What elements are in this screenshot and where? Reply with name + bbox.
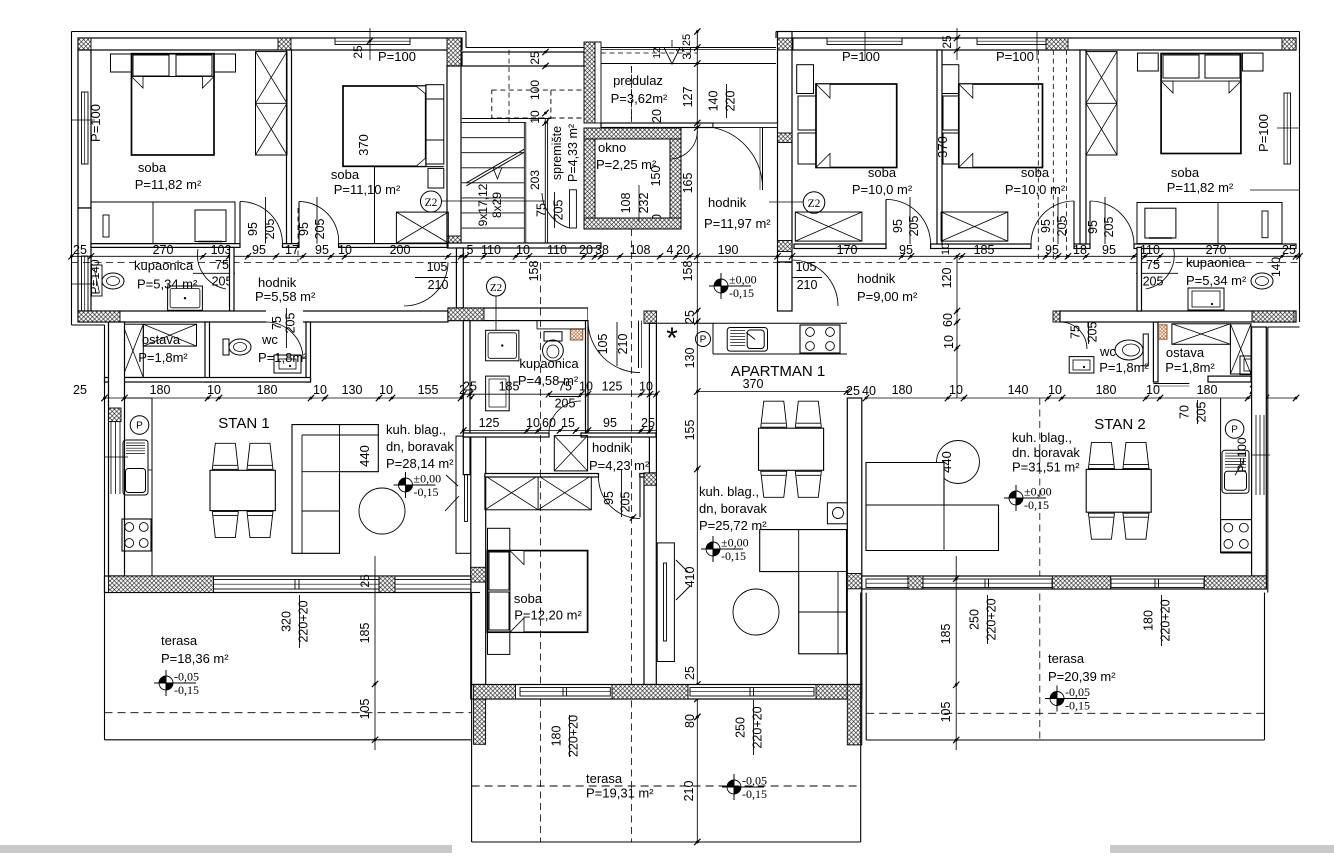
rug circle apartman1 [733, 589, 779, 635]
door arc first soba right [886, 199, 931, 244]
wall: bottom of kupaonica & hodnik left (y311) [78, 311, 448, 322]
svg-text:P=28,14 m²: P=28,14 m² [386, 456, 454, 471]
svg-text:180: 180 [550, 726, 564, 747]
door kupaonica left arc [197, 249, 226, 289]
wall STAN1 / soba 12,20 [471, 436, 486, 685]
svg-text:±0,00: ±0,00 [1024, 485, 1052, 499]
svg-text:105: 105 [939, 702, 953, 723]
window apartman1 bottom 2 [690, 688, 814, 697]
svg-text:205: 205 [1195, 402, 1209, 423]
stove stan2 [1221, 520, 1252, 552]
door leaf 105/210 center [638, 321, 640, 368]
dashed construction line in stair area [508, 50, 510, 122]
svg-text:158: 158 [681, 261, 695, 282]
svg-text:75: 75 [535, 203, 549, 217]
wall: top band right block [781, 38, 1296, 50]
hodnik 4,23 left wall [463, 437, 470, 475]
svg-text:P=1,8m²: P=1,8m² [1099, 360, 1149, 375]
door arc soba 11,82 right [1090, 201, 1134, 244]
svg-text:ostava: ostava [1166, 345, 1205, 360]
table STAN1 [212, 443, 238, 469]
door leaf soba 12,20 [639, 477, 641, 517]
svg-text:40: 40 [862, 384, 876, 398]
sofa stan2 [866, 463, 999, 551]
svg-text:110: 110 [481, 243, 501, 257]
ostava right bottom wall [1208, 376, 1251, 382]
bed soba 11,10 left fold [416, 158, 426, 166]
rug circle STAN1 [359, 488, 405, 534]
svg-text:predulaz: predulaz [613, 73, 663, 88]
door 105/210 opening right (hodnik 9,00) [792, 260, 838, 306]
hatched pier top wall right block [1046, 38, 1068, 50]
svg-text:140: 140 [707, 91, 721, 112]
dimension row right side y=398 [866, 397, 1296, 399]
svg-text:20: 20 [650, 109, 664, 123]
window P=100 in left wall [82, 92, 89, 164]
svg-text:205: 205 [1086, 322, 1100, 343]
svg-text:220+20: 220+20 [297, 600, 311, 642]
step lines at left wall top [72, 324, 105, 326]
washing machine orange kupaonica 4,58 [570, 329, 583, 340]
svg-text:P=140: P=140 [88, 259, 102, 294]
svg-text:P=20,39 m²: P=20,39 m² [1048, 669, 1116, 684]
svg-text:440: 440 [357, 445, 372, 467]
svg-text:P=100: P=100 [88, 104, 103, 142]
tv wall apartman1 [657, 543, 674, 662]
svg-text:140: 140 [1008, 383, 1029, 397]
hatch apartman1 bottom mid [612, 685, 688, 700]
staircase lower landing left wall [456, 248, 463, 308]
svg-text:-0,15: -0,15 [174, 683, 199, 697]
svg-text:-0,15: -0,15 [729, 286, 754, 300]
right terrace outline [865, 593, 867, 740]
kupaonica right bottom wall y311-322 [1060, 311, 1296, 322]
svg-text:P=11,82 m²: P=11,82 m² [135, 177, 202, 192]
wall piece at predulaz door right [713, 123, 778, 128]
niche wall right of soba 11,10 [374, 167, 376, 244]
svg-text:100: 100 [528, 80, 542, 100]
svg-text:25: 25 [358, 574, 372, 588]
dimension row y=394 center [463, 393, 656, 395]
svg-text:127: 127 [681, 87, 695, 108]
svg-text:180: 180 [1142, 610, 1156, 631]
door labels 75/205 wc left [285, 308, 287, 348]
entry door 140/220 leaf [762, 128, 764, 191]
stove apartman1 [800, 325, 840, 353]
bed first soba 10,0: pillows [798, 96, 816, 130]
okno inner lines [595, 139, 670, 218]
table apartman 1 [761, 401, 787, 427]
svg-text:STAN 1: STAN 1 [218, 415, 269, 432]
svg-text:31: 31 [680, 46, 694, 60]
svg-text:P=5,58 m²: P=5,58 m² [255, 289, 316, 304]
svg-text:P=4,33 m²: P=4,33 m² [566, 124, 580, 182]
hatched pier top-right of predulaz wall [781, 38, 793, 50]
wall: bottom of left bedrooms [91, 244, 240, 248]
step at right wall y=327 [1268, 326, 1300, 328]
svg-text:10: 10 [526, 416, 540, 430]
door into hodnik 5,58 from landing [404, 262, 448, 306]
svg-text:soba: soba [1021, 165, 1050, 180]
door leaf first soba right [885, 199, 887, 244]
bed soba 11,82 right mattress [1161, 54, 1241, 154]
window stan2 bottom 2 [923, 579, 1052, 588]
svg-text:185: 185 [499, 380, 520, 394]
wardrobe soba 11,82 right (tall) [1086, 52, 1117, 155]
dashed construction line through predulaz [631, 66, 633, 128]
svg-text:terasa: terasa [161, 633, 198, 648]
leader Z2 middle [495, 296, 497, 330]
svg-text:250: 250 [734, 717, 748, 738]
svg-text:P=2,25 m²: P=2,25 m² [596, 157, 657, 172]
door labels 95/205 soba 12,20 [621, 469, 623, 517]
door 105/210 into kupaonica area [588, 307, 641, 321]
svg-text:250: 250 [968, 609, 982, 630]
svg-text:wc: wc [1099, 344, 1116, 359]
wardrobe second soba right [941, 212, 1008, 241]
svg-text:okno: okno [598, 140, 626, 155]
kitchen counter STAN1 [151, 398, 153, 576]
sofa apartman1 back line [837, 572, 839, 654]
svg-text:±0,00: ±0,00 [729, 273, 757, 287]
svg-text:140: 140 [1269, 257, 1283, 277]
sink kupaonica right [1188, 288, 1224, 310]
circle 440 stan2 [937, 441, 980, 484]
door leaf soba 11,82 right [1089, 201, 1091, 244]
hatch stan2 bottom right corner [1204, 576, 1266, 589]
bottom wall STAN2 block [862, 576, 1267, 589]
toilet kupaonica left [102, 273, 124, 289]
svg-text:110: 110 [1140, 243, 1160, 257]
svg-text:12: 12 [652, 47, 663, 59]
svg-text:soba: soba [138, 160, 167, 175]
dashed construction line horizontal y=262.5 [72, 262, 1300, 264]
svg-text:370: 370 [356, 134, 371, 156]
svg-text:terasa: terasa [586, 771, 623, 786]
wall kupaonica/hodnik right [1137, 247, 1142, 311]
center terrace bottom vertical dims ticks [694, 714, 700, 720]
svg-text:25: 25 [73, 243, 87, 257]
svg-text:P=11,82 m²: P=11,82 m² [1167, 180, 1234, 195]
hatch stan2 bottom 2 [1052, 576, 1110, 589]
door arc kupaonica 4,58 bottom [549, 401, 581, 433]
svg-text:170: 170 [837, 243, 858, 257]
door labels 95/205 second soba right [1057, 197, 1059, 244]
svg-text:270: 270 [153, 243, 174, 257]
svg-text:105: 105 [596, 334, 610, 355]
svg-text:95: 95 [603, 416, 617, 430]
svg-text:180: 180 [257, 383, 278, 397]
dimension chain ticks [68, 253, 74, 259]
wall: left outer wall at kupaonica [78, 208, 91, 311]
P circle stan2 [1225, 420, 1244, 439]
svg-text:158: 158 [527, 261, 541, 282]
hatch piece right of center door [644, 311, 656, 323]
sink STAN1 [123, 440, 148, 495]
wall: between left bedrooms [287, 50, 292, 244]
svg-text:17: 17 [285, 243, 299, 257]
bed soba 11,10 left: mattress [343, 86, 426, 166]
svg-text:75: 75 [1146, 258, 1160, 272]
svg-text:25: 25 [683, 666, 697, 680]
svg-text:185: 185 [939, 624, 953, 645]
svg-text:P=18,36 m²: P=18,36 m² [161, 651, 229, 666]
sofa STAN1 inner lines [339, 425, 341, 472]
kitchen counter apartman 1 [712, 323, 714, 354]
svg-text:P=25,72 m²: P=25,72 m² [699, 518, 767, 533]
window P=100 left STAN1 [110, 421, 112, 494]
dashed opening rectangle above stairs [492, 90, 551, 118]
svg-text:105: 105 [358, 699, 372, 720]
svg-text:190: 190 [718, 243, 739, 257]
spremiste door arc [542, 193, 570, 228]
svg-text:108: 108 [619, 193, 633, 214]
svg-text:210: 210 [428, 278, 449, 292]
svg-text:10: 10 [1048, 383, 1062, 397]
stan2 kitchen counter [1220, 398, 1222, 553]
bottom wall apartman1 block [471, 685, 862, 700]
center terrace inner step lines [472, 592, 480, 594]
svg-text:P=10,0 m²: P=10,0 m² [1005, 182, 1066, 197]
hatch apartman1 bottom right [816, 685, 847, 700]
right outer line lower [1267, 327, 1269, 593]
svg-text:25: 25 [683, 310, 697, 324]
svg-text:P=3,62m²: P=3,62m² [611, 91, 668, 106]
svg-text:10: 10 [313, 383, 327, 397]
door labels 95/205 soba 11,82 left [265, 197, 267, 244]
svg-text:25: 25 [940, 35, 954, 49]
gray bottom bar right [1110, 845, 1334, 853]
svg-text:P=10,0 m²: P=10,0 m² [852, 182, 913, 197]
svg-text:P=100: P=100 [1235, 437, 1249, 472]
stove STAN1 [122, 519, 151, 551]
svg-text:wc: wc [261, 332, 278, 347]
bed first soba 10,0: nightstand [797, 65, 814, 94]
right terrace dashed line [866, 712, 1264, 714]
bed soba 12,20 nightstands [488, 528, 510, 550]
svg-text:205: 205 [313, 219, 327, 240]
tv on dresser right [1145, 208, 1176, 238]
window apartman1 bottom 1 [520, 688, 610, 697]
svg-text:60: 60 [941, 313, 955, 327]
desk right of soba 11,10 [426, 85, 444, 164]
kitchen top piece stan2 [1240, 356, 1264, 375]
door arc second soba right [1031, 201, 1074, 244]
svg-text:-0,15: -0,15 [1065, 699, 1090, 713]
svg-text:165: 165 [681, 173, 695, 194]
wall wc/ostava right [1153, 322, 1158, 382]
svg-text:25: 25 [351, 45, 365, 59]
wardrobe row soba 12,20 [485, 476, 591, 510]
svg-text:25: 25 [681, 34, 693, 46]
kupaonica 4,58 left wall [463, 321, 470, 437]
svg-text:4: 4 [667, 243, 674, 257]
wardrobe soba 11,82 left [256, 52, 288, 155]
svg-text:soba: soba [514, 591, 543, 606]
svg-text:205: 205 [907, 216, 921, 237]
dimension row STAN1 top y=398 [105, 397, 472, 399]
bed first soba 10,0: mattress [816, 84, 897, 168]
dashed line x=298 left [297, 208, 299, 263]
sofa STAN1 [292, 425, 378, 554]
svg-text:10: 10 [528, 110, 542, 124]
center terrace elevation [727, 780, 734, 787]
svg-text:130: 130 [342, 383, 363, 397]
hatch pier on left wall STAN1 [109, 408, 122, 422]
svg-text:185: 185 [358, 623, 372, 644]
window P=140 in left wall at kupaonica [82, 256, 89, 311]
door arc kupaonica right [1146, 249, 1175, 289]
svg-text:108: 108 [630, 243, 651, 257]
wall right of predulaz/hodnik (apartment 1 left wall) [778, 32, 793, 263]
hatch mid STAN1 bottom [379, 576, 395, 593]
main horizontal dimension chain [72, 255, 1300, 257]
svg-text:Z2: Z2 [808, 198, 821, 210]
svg-text:205: 205 [1102, 217, 1116, 238]
shaft X box hodnik [554, 436, 587, 471]
outer thin outline step at stair block [465, 32, 467, 48]
wall: bottom of right bedrooms [794, 244, 886, 249]
staircase: top wall band [462, 52, 584, 66]
wall hodnik 4,23 / soba 12,20 [485, 474, 599, 478]
window right wall stan2 [1255, 415, 1257, 495]
svg-text:P=11,10 m²: P=11,10 m² [334, 182, 401, 197]
dimension row y=427 center [463, 430, 656, 432]
svg-text:103: 103 [211, 243, 232, 257]
dim 370 apartman1 [697, 391, 847, 393]
svg-text:P=4,23 m²: P=4,23 m² [589, 458, 650, 473]
svg-text:soba: soba [868, 165, 897, 180]
hatched terrace wall stub left of center terrace [473, 699, 485, 744]
center terrace outline [471, 593, 473, 843]
bed soba 12,20 mattress [488, 551, 588, 633]
left terrace elevation [159, 676, 166, 683]
svg-text:120: 120 [940, 268, 954, 289]
gray bottom bar left [0, 845, 452, 853]
left dashed guideline from kupaonica [185, 263, 187, 312]
svg-text:25: 25 [528, 51, 542, 65]
svg-text:95: 95 [1086, 220, 1100, 234]
svg-text:±0,00: ±0,00 [414, 472, 442, 486]
predulaz bottom wall / apartment entry wall [601, 123, 713, 128]
svg-text:10: 10 [338, 243, 352, 257]
svg-text:75: 75 [1069, 325, 1083, 339]
svg-text:155: 155 [418, 383, 439, 397]
wall between soba 10,0 and soba 11,82 right [1080, 50, 1086, 244]
bathtub kupaonica 4,58 [486, 376, 510, 411]
shower kupaonica left [168, 286, 203, 310]
door arc soba 12,20 [599, 477, 641, 519]
svg-text:25: 25 [463, 380, 477, 394]
svg-text:70: 70 [1178, 405, 1192, 419]
table stan2 [1088, 442, 1114, 468]
svg-text:110: 110 [547, 243, 567, 257]
slot on desk left [103, 215, 109, 237]
sink stan2 [1222, 450, 1249, 493]
svg-text:-0,15: -0,15 [1024, 498, 1049, 512]
svg-text:P=12,20 m²: P=12,20 m² [514, 608, 582, 623]
toilet kupaonica 4,58 [543, 340, 564, 361]
svg-text:210: 210 [797, 278, 818, 292]
wall kupaonica/hodnik left [230, 247, 235, 311]
hatched pier top-left corner [78, 38, 91, 50]
svg-text:155: 155 [683, 420, 697, 441]
svg-text:P=1,8m²: P=1,8m² [138, 350, 188, 365]
bed soba 11,82 left: nightstand left [111, 54, 132, 72]
elevation marker stan2 [1009, 491, 1016, 498]
svg-text:dn, boravak: dn, boravak [386, 439, 454, 454]
svg-text:10: 10 [942, 335, 956, 349]
door arc soba 11,10 left [299, 202, 339, 244]
svg-text:10: 10 [207, 383, 221, 397]
svg-text:200: 200 [390, 243, 411, 257]
svg-text:dn. boravak: dn. boravak [1012, 445, 1080, 460]
door arc wc right [1060, 322, 1087, 349]
svg-text:320: 320 [280, 611, 294, 632]
svg-text:P=19,31 m²: P=19,31 m² [586, 786, 654, 801]
door leaf soba 11,82 left [239, 202, 241, 244]
svg-text:180: 180 [1197, 383, 1218, 397]
staircase: landing line [462, 118, 551, 120]
svg-text:185: 185 [974, 243, 995, 257]
center terrace dashed line [472, 785, 861, 787]
svg-text:203: 203 [528, 170, 542, 190]
svg-text:ostava: ostava [142, 332, 181, 347]
stair flight second rail [544, 119, 546, 244]
entry door 140/220 arc [713, 128, 763, 191]
staircase block bottom wall [448, 243, 601, 248]
box below desk soba 11,10 [428, 168, 444, 188]
hatched pier top-right corner [1282, 38, 1296, 50]
circle Z2 left [421, 191, 442, 212]
svg-text:±0,00: ±0,00 [721, 536, 749, 550]
predulaz left wall hatched [584, 42, 595, 123]
window in top wall above second soba 10,0 right [977, 38, 1052, 45]
window in top wall above first soba 10,0 right [827, 38, 902, 45]
dashed construction vertical x=631.5 [631, 66, 633, 123]
ostava left X furniture [123, 324, 144, 377]
niche line kupaonica 4,58 [537, 328, 588, 330]
svg-text:8x29: 8x29 [490, 192, 504, 218]
stair direction arrow [466, 152, 524, 186]
svg-text:kuh. blag.,: kuh. blag., [1012, 430, 1072, 445]
vertical dim column stairs x=546 [545, 50, 547, 64]
svg-text:105: 105 [427, 260, 448, 274]
bed second soba 10,0: pillows [943, 96, 959, 130]
elevation marker hodnik apartman1 [714, 279, 721, 286]
svg-text:P=31,51 m²: P=31,51 m² [1012, 460, 1080, 475]
bed soba 11,82 right nightstands [1138, 53, 1159, 71]
door opening in wall y311 left [266, 310, 303, 323]
svg-text:10: 10 [639, 380, 653, 394]
window stan2 bottom 3 [1111, 579, 1204, 588]
door labels 95/205 first soba right [909, 197, 911, 244]
svg-text:220+20: 220+20 [1159, 599, 1173, 641]
svg-text:18: 18 [1073, 243, 1087, 257]
svg-text:220+20: 220+20 [567, 715, 581, 757]
svg-text:60: 60 [542, 416, 556, 430]
svg-text:hodnik: hodnik [592, 440, 631, 455]
dim 25 tick top window left [369, 28, 371, 60]
svg-text:P=100: P=100 [378, 49, 416, 64]
hatched pier top wall between left bedrooms [278, 38, 291, 50]
svg-text:hodnik: hodnik [258, 275, 297, 290]
wc right room walls [1053, 311, 1065, 322]
svg-text:-0,05: -0,05 [1065, 685, 1090, 699]
wall: top band left block [78, 38, 462, 50]
wardrobe first soba right [795, 212, 862, 241]
apartment1 living left wall lower [644, 473, 656, 685]
